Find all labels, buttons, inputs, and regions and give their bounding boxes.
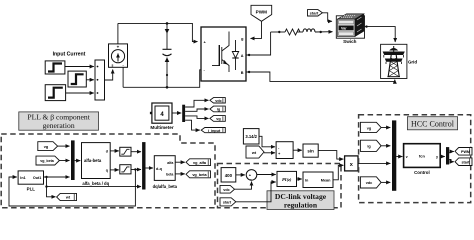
- saturation block S2: [120, 165, 131, 174]
- svg-text:vg_beta: vg_beta: [192, 173, 207, 177]
- wire mean to product X: [333, 165, 343, 180]
- svg-text:d-q: d-q: [156, 167, 163, 171]
- wire feedback q to PLL In1: [9, 170, 135, 207]
- svg-text:A: A: [241, 54, 244, 58]
- constant 400: [221, 168, 236, 182]
- tower: [389, 48, 398, 51]
- wire demux to ig tag: [185, 109, 208, 111]
- DC-link dashed box: [218, 164, 342, 208]
- demux D2: [446, 147, 449, 164]
- svg-text:vg_alfa: vg_alfa: [193, 161, 207, 165]
- wire sum circle to PI: [257, 174, 276, 176]
- wire mux M3 to dq block: [146, 167, 154, 169]
- block dq/alfa_beta: [153, 156, 178, 190]
- wire source - to bottom rail: [122, 67, 124, 87]
- wire sin to product X: [318, 151, 343, 160]
- wire I1 to mux: [65, 66, 94, 68]
- wire demux to i_input tag: [185, 120, 200, 130]
- wire demux to vg tag: [185, 116, 208, 119]
- wire mux M2 to alfa-beta block: [75, 160, 81, 162]
- HCC label: [407, 117, 457, 130]
- wire vdc to sum circle: [235, 182, 252, 190]
- svg-text:dq/alfa_beta: dq/alfa_beta: [153, 184, 178, 189]
- wire vg_beta to mux M2: [59, 160, 69, 162]
- demux D1: [182, 105, 185, 122]
- svg-text:s: s: [112, 64, 114, 68]
- svg-text:generation: generation: [43, 121, 75, 130]
- from tag start (DC): [220, 198, 236, 206]
- svg-text:Mean: Mean: [321, 179, 331, 183]
- svg-text:q: q: [106, 168, 108, 172]
- IGBT glyph: [218, 45, 220, 66]
- svg-text:3.14/2: 3.14/2: [245, 134, 257, 139]
- wire alfa to vg_alfa tag: [175, 161, 185, 163]
- svg-text:vg: vg: [44, 145, 49, 149]
- bottom rail wire to bridge -: [123, 70, 200, 89]
- goto tag vdc: [210, 98, 225, 103]
- goto tag i_input: [201, 128, 225, 133]
- wire start to switch: [322, 13, 332, 21]
- svg-text:Var: Var: [341, 26, 347, 30]
- svg-text:vg: vg: [367, 126, 372, 130]
- svg-text:vdc: vdc: [223, 188, 230, 192]
- svg-text:vg: vg: [216, 117, 221, 121]
- svg-text:Input Current: Input Current: [53, 52, 86, 58]
- svg-text:PLL: PLL: [27, 186, 36, 191]
- svg-text:Swich: Swich: [343, 39, 356, 44]
- PLL block: [18, 171, 43, 191]
- svg-text:y: y: [436, 155, 438, 159]
- svg-text:i_input: i_input: [208, 129, 221, 133]
- wire I3 to mux: [66, 92, 94, 94]
- wire S2 to mux M3 with branch to PLL feedback: [131, 168, 141, 170]
- svg-text:start: start: [223, 201, 232, 205]
- wire Out1 branch down to wt tag and dq mux: [45, 177, 141, 197]
- from tag ig (HCC): [360, 140, 381, 151]
- svg-text:alfa_beta / dq: alfa_beta / dq: [82, 181, 109, 186]
- svg-text:alfa: alfa: [167, 161, 173, 165]
- HCC dashed box: [359, 115, 471, 203]
- wire 400 to sum circle: [236, 174, 245, 176]
- svg-text:Grid: Grid: [408, 60, 417, 65]
- sin block: [303, 144, 318, 157]
- sum block (theta): [276, 142, 293, 159]
- from tag start (top): [308, 10, 323, 16]
- svg-text:start: start: [310, 10, 319, 15]
- wire d to saturation S1: [110, 150, 119, 152]
- wire wt to sum: [264, 152, 275, 154]
- RL branch R1 L1: [271, 29, 333, 35]
- wire PWM to g: [251, 21, 262, 38]
- control block fcn: [404, 144, 441, 176]
- svg-text:B: B: [241, 71, 244, 75]
- from tag vdc (DC): [220, 185, 235, 193]
- grid block G1: [381, 44, 418, 78]
- svg-text:d: d: [106, 150, 108, 154]
- wire vdc to mux M4: [381, 181, 390, 183]
- from tag vg (HCC): [360, 122, 381, 132]
- wire PI to mean: [297, 178, 302, 180]
- wire source + to top rail: [117, 23, 119, 44]
- constant 3.14/2: [243, 129, 259, 144]
- goto tag vg_beta out: [186, 171, 211, 178]
- wire start to PI reset: [236, 182, 276, 202]
- controlled current source U1: [109, 44, 128, 68]
- wire S1 to mux M3: [131, 151, 141, 153]
- wire demux to PWM tag: [449, 152, 454, 153]
- IGBT bridge B1: [201, 27, 246, 81]
- block alfa_beta/dq: [82, 143, 111, 186]
- breaker switch SW1: [336, 14, 364, 44]
- svg-text:vdc: vdc: [366, 181, 373, 185]
- wire q to saturation S2: [110, 169, 119, 171]
- mux M2: [71, 140, 75, 180]
- PI controller: [277, 171, 297, 186]
- wire sum to sin: [293, 149, 302, 151]
- diode glyph: [235, 40, 237, 70]
- goto tag ig: [210, 106, 225, 112]
- svg-text:wt: wt: [65, 196, 71, 200]
- wire multimeter to demux: [172, 112, 181, 114]
- wire control to demux D2: [440, 156, 445, 158]
- mux M3: [142, 142, 145, 189]
- svg-text:wt: wt: [251, 151, 257, 155]
- top rail wire to bridge +: [118, 22, 198, 41]
- PLL dashed box: [1, 134, 215, 208]
- product X: [345, 156, 358, 171]
- svg-text:fcn: fcn: [419, 154, 426, 159]
- svg-text:alfa-beta: alfa-beta: [84, 158, 102, 163]
- step source I3: [45, 85, 65, 101]
- saturation block S1: [120, 147, 131, 156]
- wire demux to vdc tag: [185, 100, 208, 107]
- goto tag vg: [210, 116, 225, 122]
- wire X to mux M4: [358, 162, 390, 164]
- svg-text:400: 400: [225, 173, 233, 178]
- svg-text:PWM: PWM: [461, 150, 470, 154]
- svg-text:Out1: Out1: [33, 176, 41, 180]
- from tag vdc (HCC): [360, 177, 381, 188]
- svg-text:v: v: [406, 155, 408, 159]
- svg-text:HCC Control: HCC Control: [411, 119, 455, 128]
- svg-text:Multimeter: Multimeter: [150, 125, 173, 130]
- wire mux M1 to source s input: [105, 70, 113, 81]
- wire demux to start tag: [449, 160, 454, 162]
- wire vg to mux M2: [58, 145, 70, 147]
- step source I1: [45, 61, 65, 74]
- from tag vg_beta (PLL): [36, 156, 59, 165]
- wire mux M4 to control: [396, 156, 402, 158]
- goto tag start (HCC): [455, 158, 472, 166]
- goto tag wt: [57, 193, 77, 200]
- svg-text:beta: beta: [166, 173, 173, 177]
- from tag vg (PLL): [38, 142, 58, 151]
- DC-link label: [267, 191, 334, 210]
- wire 3.14/2 to sum: [259, 136, 275, 147]
- step source I2: [68, 71, 86, 87]
- wire beta to vg_beta tag: [175, 173, 185, 175]
- from tag wt (DC): [246, 146, 264, 158]
- wire B to grid bottom: [246, 71, 395, 82]
- svg-text:sin: sin: [307, 149, 314, 154]
- wire Out1 to mux M2: [44, 176, 70, 178]
- wire A to RL branch: [246, 32, 271, 56]
- svg-text:regulation: regulation: [284, 200, 318, 209]
- svg-text:PI(z): PI(z): [282, 177, 292, 182]
- svg-text:Control: Control: [414, 170, 430, 175]
- wire ig to mux M4: [381, 145, 390, 147]
- svg-text:vdc: vdc: [215, 99, 222, 103]
- goto tag vg_alfa: [186, 159, 211, 166]
- svg-text:In1: In1: [20, 176, 25, 180]
- svg-text:+: +: [117, 45, 120, 50]
- PLL section label: [19, 112, 99, 130]
- mux M1: [95, 60, 105, 100]
- mux M4: [392, 120, 396, 190]
- multimeter: [150, 103, 174, 130]
- sum circle: [246, 170, 257, 182]
- wire vg to mux M4: [381, 127, 390, 129]
- capacitor C1: [163, 23, 172, 87]
- mean block: [303, 172, 333, 188]
- wire I2 to mux: [86, 79, 94, 81]
- svg-text:PWM: PWM: [256, 9, 267, 14]
- goto tag PWM (HCC): [455, 148, 472, 156]
- svg-text:start: start: [462, 160, 471, 164]
- from tag PWM: [251, 5, 272, 21]
- svg-text:vg_beta: vg_beta: [40, 159, 55, 163]
- label Input Current: [53, 52, 86, 58]
- wire switch to grid top: [365, 25, 396, 42]
